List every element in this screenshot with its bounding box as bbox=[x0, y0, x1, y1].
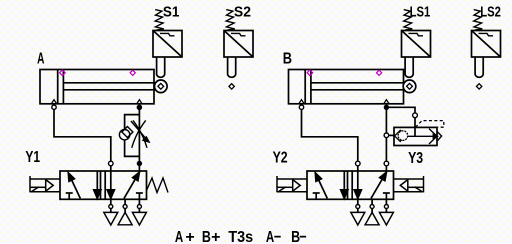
cylinder B rod bbox=[311, 82, 405, 84]
Y3 flow line bbox=[408, 135, 434, 137]
valve Y2 right solenoid pilot actuator (mirrored) bbox=[394, 176, 424, 192]
FC1 throttle arcs bbox=[132, 120, 146, 147]
FC1 adjustment arrow bbox=[131, 121, 147, 140]
node circle on wire above Y2 port 4 bbox=[356, 161, 361, 166]
svg-text:LS1: LS1 bbox=[410, 3, 431, 20]
svg-text:Y3: Y3 bbox=[408, 150, 423, 168]
cylinder B body bbox=[289, 70, 404, 104]
valve Y1 solenoid pilot actuator bbox=[30, 176, 60, 192]
Y3 left port circle on wire bbox=[384, 133, 389, 138]
valve Y1 body bbox=[60, 171, 147, 225]
node circle on Y3 top wire bbox=[413, 113, 418, 118]
valve Y2 left solenoid pilot actuator bbox=[277, 176, 307, 192]
svg-text:A: A bbox=[37, 49, 45, 67]
svg-text:LS2: LS2 bbox=[480, 3, 501, 20]
valve Y1 return spring bbox=[147, 178, 169, 193]
svg-text:Y2: Y2 bbox=[273, 149, 288, 167]
cylinder B left port bbox=[299, 100, 304, 104]
magenta marker mid cylinder B bbox=[377, 70, 382, 75]
Y3 check valve ball (dashed) bbox=[398, 131, 408, 141]
cylinder A body bbox=[40, 70, 154, 104]
junction dot bottom of FC1 bbox=[137, 161, 142, 166]
cylinder B right port (junction dot) bbox=[384, 100, 389, 104]
svg-text:A: A bbox=[266, 227, 274, 244]
cylinder A piston bbox=[57, 70, 59, 104]
cylinder A left port bbox=[51, 100, 56, 104]
wire B right port to valve Y3 top port bbox=[386, 107, 415, 113]
wire A left port to valve Y1 port 4 bbox=[54, 109, 111, 161]
svg-text:S1: S1 bbox=[163, 4, 180, 21]
cylinder A rod end roller bbox=[155, 80, 168, 93]
svg-text:Y1: Y1 bbox=[25, 147, 40, 165]
svg-text:−: − bbox=[299, 229, 306, 244]
magenta marker on piston of B bbox=[307, 70, 313, 76]
cylinder B rod end roller bbox=[403, 80, 416, 93]
node circle on wire above Y2 port 2 bbox=[384, 161, 389, 166]
limit switch S1 bbox=[153, 10, 182, 78]
svg-text:+: + bbox=[185, 229, 194, 244]
svg-text:T3s: T3s bbox=[228, 228, 253, 244]
magenta marker mid cylinder A bbox=[130, 70, 135, 75]
svg-text:B: B bbox=[283, 50, 292, 68]
connection diamond under S2 bbox=[229, 84, 234, 89]
wire B left port to valve Y2 port 4 bbox=[302, 109, 358, 161]
FC1 check valve seat diamond bbox=[122, 127, 133, 138]
node circle on wire above Y1 port 4 bbox=[109, 161, 114, 166]
valve Y2 body bbox=[307, 171, 394, 225]
cylinder A right port (junction dot) bbox=[137, 100, 142, 104]
Y3 check valve seat diamond bbox=[395, 130, 406, 141]
svg-text:S2: S2 bbox=[234, 4, 251, 21]
wire A right port down through flow control bbox=[138, 104, 140, 171]
connection diamond under LS2 bbox=[476, 84, 481, 89]
svg-text:−: − bbox=[274, 229, 281, 244]
valve Y3 body bbox=[394, 127, 437, 145]
junction dot top of FC1 bbox=[137, 105, 142, 110]
magenta marker on piston of A bbox=[60, 70, 66, 76]
cylinder A rod bbox=[63, 82, 156, 84]
flow control FC1 branch loop bbox=[125, 115, 140, 157]
Y3 outlet chevron bbox=[437, 132, 441, 141]
svg-text:A: A bbox=[175, 227, 183, 244]
limit switch LS2 bbox=[472, 10, 501, 78]
Y3 seat diagonals bbox=[429, 129, 437, 137]
limit switch LS1 bbox=[402, 10, 431, 78]
svg-text:B: B bbox=[202, 229, 211, 244]
wire B right port down to valve Y2 port 2 bbox=[385, 104, 387, 161]
cylinder B piston bbox=[304, 70, 306, 104]
Y3 pilot dashed line bbox=[416, 121, 444, 128]
limit switch S2 bbox=[224, 10, 253, 78]
svg-text:+: + bbox=[211, 229, 220, 244]
FC1 check valve ball bbox=[119, 130, 129, 140]
